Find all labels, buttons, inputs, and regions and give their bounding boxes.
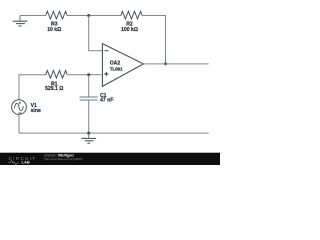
wire R2 to right corner [142,16,165,64]
ground GND1 bars [13,21,28,26]
op-amp plus sign [104,72,108,76]
node A junction dot [87,14,90,17]
V1 minus mark [18,112,21,114]
svg-text:TL081: TL081 [110,66,123,71]
bottom rail wire [19,132,209,134]
op-amp OA2 triangle [102,44,143,87]
op-amp minus sign [105,50,109,52]
wire V1 down to bottom rail [18,115,20,134]
resistor R3 zigzag [46,11,67,19]
ground GND2 bars [81,138,96,143]
CircuitLab logo waveform [8,161,19,165]
wire node A to R2 [89,15,121,17]
wire node A down to inverting input [89,16,103,51]
ground GND1 stem [19,16,21,22]
capacitor C1 plates [80,97,98,100]
svg-text:LAB: LAB [22,159,30,164]
node C junction dot (plus input / C1) [87,73,90,76]
svg-text:100 kΩ: 100 kΩ [121,27,138,33]
wire R3 to node A [67,15,89,17]
resistor R2 zigzag [121,11,142,19]
wire top: ground to R3 [20,15,46,17]
resistor R1 zigzag [46,71,67,79]
wire V1 up to R1 [19,75,46,100]
svg-text:sine: sine [31,108,41,114]
wire R1 to non-inverting input [67,74,102,76]
wire op-amp output [144,63,209,65]
V1 plus mark [18,102,21,105]
voltage source V1 circle [12,100,27,115]
svg-text:10 kΩ: 10 kΩ [47,27,61,33]
wire node C down to C1 [88,75,90,97]
svg-text:http://circuitlab.com/c/qpt8b5: http://circuitlab.com/c/qpt8b5 [44,157,83,161]
watermark bar [0,153,220,165]
svg-text:47 nF: 47 nF [100,97,113,103]
svg-text:529.1 Ω: 529.1 Ω [45,86,63,92]
node D junction dot (ground rail) [87,132,90,135]
wire C1 down to bottom rail [88,100,90,133]
node B junction dot (output) [164,62,167,65]
ground GND2 stem [88,133,90,138]
V1 sine squiggle [14,103,23,110]
